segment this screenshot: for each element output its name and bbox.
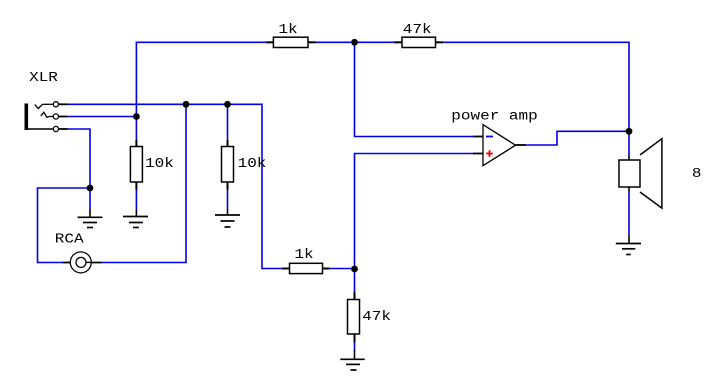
wire shield node down to ground bbox=[89, 188, 91, 210]
speaker LS1 bbox=[619, 139, 662, 208]
svg-text:1k: 1k bbox=[278, 23, 297, 38]
ground symbol under shield node bbox=[78, 210, 103, 228]
junction feedback node bbox=[351, 266, 358, 273]
svg-text:RCA: RCA bbox=[55, 233, 85, 248]
wire amp output to speaker node bbox=[526, 131, 629, 145]
label RCA bbox=[55, 233, 85, 248]
label 1k middle bbox=[294, 248, 313, 263]
junction pin2 node bbox=[133, 113, 140, 120]
svg-text:47k: 47k bbox=[403, 23, 432, 38]
label XLR bbox=[29, 71, 58, 86]
op-amp non-inverting input marker bbox=[486, 150, 493, 157]
wire RCA center riser up to hot bus bbox=[102, 104, 187, 262]
wire output node down to speaker bbox=[628, 131, 630, 155]
svg-text:XLR: XLR bbox=[29, 71, 58, 86]
ground symbol under speaker bbox=[616, 235, 641, 255]
svg-text:1k: 1k bbox=[294, 248, 313, 263]
RCA connector J2 bbox=[63, 252, 102, 273]
label 1k top bbox=[278, 23, 297, 38]
wire from pin2 node down through R 10k to ground bbox=[135, 117, 137, 210]
XLR connector J1 bbox=[25, 102, 68, 132]
resistor R4 10k second termination bbox=[222, 140, 234, 190]
ground symbol under left 10k bbox=[123, 209, 148, 228]
resistor R1 1k top bbox=[267, 37, 316, 47]
ground symbol under second 10k bbox=[215, 209, 240, 227]
wire speaker bottom to ground bbox=[628, 193, 630, 235]
label 10k left bbox=[145, 157, 174, 172]
svg-text:10k: 10k bbox=[238, 157, 267, 172]
wire top bus from input divider node over to output node bbox=[136, 42, 629, 131]
op-amp inverting input marker bbox=[486, 136, 493, 138]
wire feedback node up to amp non-inverting input bbox=[355, 154, 474, 270]
resistor R5 1k middle bbox=[282, 263, 330, 273]
svg-text:10k: 10k bbox=[145, 157, 174, 172]
wire XLR pin1 hot lead across to middle 1k row bbox=[68, 104, 355, 268]
junction RCA riser on hot bus bbox=[183, 101, 190, 108]
resistor R3 10k input termination bbox=[130, 140, 142, 190]
junction second 10k on hot bus bbox=[224, 101, 231, 108]
wire feedback node down through 47k to ground bbox=[354, 269, 356, 350]
resistor R2 47k top feedback bbox=[395, 37, 444, 47]
wire second 10k resistor drop from hot bus bbox=[227, 104, 229, 209]
wire shield node around to RCA sleeve bbox=[38, 188, 91, 263]
junction output node bbox=[626, 128, 633, 135]
label 10k right bbox=[238, 157, 267, 172]
label 8 speaker impedance bbox=[692, 167, 702, 182]
wire top node down to amp inverting input bbox=[355, 42, 474, 136]
svg-text:47k: 47k bbox=[362, 310, 391, 325]
op-amp U1 power amp bbox=[473, 125, 526, 166]
label 47k middle bbox=[362, 310, 391, 325]
resistor R6 47k to ground bbox=[348, 292, 360, 343]
wire XLR pin2 lead to node bbox=[68, 116, 137, 118]
wire XLR pin3 to shield node bbox=[68, 129, 91, 188]
label 47k top bbox=[403, 23, 432, 38]
svg-text:power amp: power amp bbox=[451, 109, 537, 124]
junction shield node bbox=[87, 185, 94, 192]
svg-text:8: 8 bbox=[692, 167, 702, 182]
ground symbol under 47k bbox=[340, 350, 364, 370]
junction top node bbox=[351, 39, 358, 46]
label power amp bbox=[451, 109, 537, 124]
